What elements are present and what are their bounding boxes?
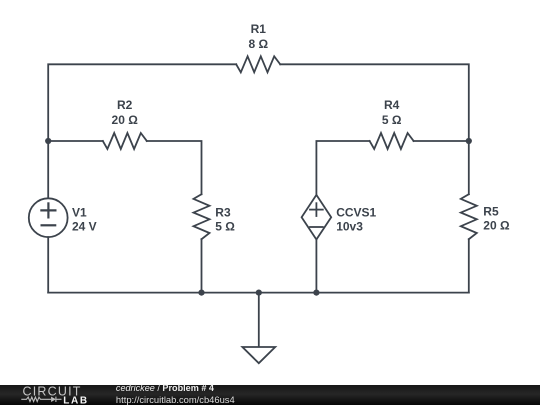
svg-text:R3: R3 [215, 205, 231, 219]
wire: R2 to R3 corner [147, 141, 202, 194]
svg-text:CCVS1: CCVS1 [336, 205, 376, 219]
wire: bottom rail [48, 292, 469, 294]
wire: R3 bottom to bottom rail [201, 239, 203, 292]
resistor R4 [370, 133, 414, 149]
wire: CCVS1 bottom to bottom rail [315, 240, 317, 293]
resistor R1 [236, 56, 280, 72]
svg-text:24 V: 24 V [72, 219, 97, 233]
wire: V1 bottom to bottom rail [47, 237, 49, 293]
svg-text:R2: R2 [117, 98, 133, 112]
wire: right rail junction to R5 top [468, 141, 470, 194]
junction node ground [256, 290, 262, 296]
wire: top rail right segment [280, 64, 469, 141]
voltage source V1 [29, 198, 68, 237]
svg-text:http://circuitlab.com/cb46us4: http://circuitlab.com/cb46us4 [116, 394, 235, 405]
svg-text:R5: R5 [483, 204, 499, 218]
wire: R2 row left segment [48, 140, 103, 142]
svg-text:5 Ω: 5 Ω [215, 219, 235, 233]
resistor R2 [103, 133, 147, 149]
CircuitLab logo resistor-diode glyph [21, 397, 61, 402]
wire: R4 to right rail [414, 140, 469, 142]
wire: left rail junction to V1 top [47, 141, 49, 198]
svg-text:20 Ω: 20 Ω [483, 218, 510, 232]
junction node left (R2 tap) [45, 138, 51, 144]
junction node CCVS1 bottom [313, 290, 319, 296]
resistor R5 [461, 194, 477, 239]
wire: CCVS1 column top [316, 141, 369, 195]
svg-text:5 Ω: 5 Ω [382, 113, 402, 127]
dependent source CCVS1 [302, 195, 332, 240]
wire: R5 bottom to bottom rail [468, 239, 470, 292]
svg-text:cedrickee / Problem # 4: cedrickee / Problem # 4 [116, 383, 215, 393]
svg-text:LAB: LAB [63, 395, 89, 405]
svg-text:R1: R1 [251, 22, 267, 36]
svg-text:20 Ω: 20 Ω [112, 113, 139, 127]
junction node right (R4 tap) [466, 138, 472, 144]
svg-text:V1: V1 [72, 205, 87, 219]
svg-text:R4: R4 [384, 98, 400, 112]
footer bar [0, 385, 540, 405]
svg-text:10v3: 10v3 [336, 219, 363, 233]
wire: ground stem [258, 293, 260, 347]
wire: top rail left segment [48, 64, 236, 141]
ground [242, 347, 275, 363]
resistor R3 [194, 194, 210, 239]
junction node R3 bottom [198, 290, 204, 296]
svg-text:8 Ω: 8 Ω [248, 37, 268, 51]
